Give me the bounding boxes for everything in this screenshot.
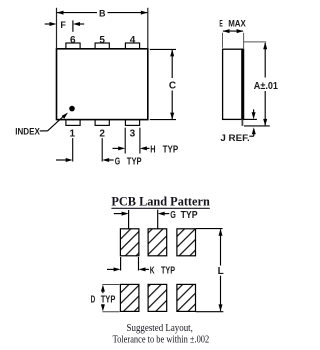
land G arrows bbox=[114, 213, 123, 215]
dimension J lower extension bbox=[244, 125, 270, 127]
svg-text:G: G bbox=[170, 210, 176, 221]
dimension G ticks (pin 1 / pin 2 centerlines) bbox=[72, 138, 74, 161]
F tick (pin 6 centerline) bbox=[72, 20, 74, 31]
svg-text:2: 2 bbox=[99, 129, 105, 140]
dimension B extension lines bbox=[56, 8, 58, 49]
pad 1 row 1 bbox=[120, 229, 138, 256]
svg-text:A±.01: A±.01 bbox=[254, 81, 279, 92]
package body (top view) bbox=[57, 49, 148, 120]
side view body bbox=[223, 49, 244, 119]
svg-text:TYP: TYP bbox=[127, 156, 142, 167]
svg-text:TYP: TYP bbox=[163, 145, 179, 156]
dimension C extension lines bbox=[150, 48, 176, 50]
svg-text:C: C bbox=[169, 81, 176, 92]
pin 6 bbox=[66, 43, 80, 49]
svg-text:TYP: TYP bbox=[161, 266, 175, 277]
svg-text:3: 3 bbox=[130, 129, 136, 140]
dimension H ticks (pin 3 edges) bbox=[124, 128, 126, 154]
dimension F arrows bbox=[45, 23, 51, 25]
pad 3 row 1 bbox=[177, 229, 196, 256]
svg-text:L: L bbox=[218, 266, 224, 277]
svg-text:Suggested Layout,: Suggested Layout, bbox=[127, 323, 193, 334]
pin 2 bbox=[95, 120, 109, 126]
svg-text:G: G bbox=[115, 156, 121, 167]
pad 2 row 1 bbox=[148, 229, 167, 256]
dimension G arrows bbox=[56, 159, 67, 161]
dimension J upper extension bbox=[244, 118, 257, 120]
dimension B line bbox=[57, 12, 97, 14]
dimension J down arrow bbox=[253, 109, 255, 114]
pin 5 bbox=[95, 43, 109, 49]
dimension E line bbox=[223, 30, 243, 32]
svg-text:E: E bbox=[219, 18, 222, 28]
pad 2 row 2 bbox=[148, 284, 167, 311]
dimension K arrows bbox=[107, 268, 115, 270]
dimension H arrows bbox=[113, 147, 120, 149]
svg-text:J REF.: J REF. bbox=[220, 133, 249, 143]
dimension C line bbox=[171, 50, 173, 78]
pin 1 bbox=[66, 120, 80, 126]
svg-text:F: F bbox=[60, 20, 66, 30]
svg-text:INDEX: INDEX bbox=[15, 127, 40, 137]
dimension K ticks bbox=[120, 257, 122, 271]
land G ticks bbox=[128, 210, 130, 229]
side view lead (thick bar) bbox=[241, 49, 244, 120]
svg-text:PCB Land Pattern: PCB Land Pattern bbox=[111, 194, 210, 209]
dimension J up arrow / leader bbox=[252, 127, 256, 134]
svg-text:5: 5 bbox=[99, 35, 105, 46]
dimension D line bbox=[101, 285, 105, 292]
svg-text:4: 4 bbox=[130, 35, 136, 46]
svg-text:TYP: TYP bbox=[101, 294, 116, 305]
index dot bbox=[69, 106, 75, 112]
pad 1 row 2 bbox=[120, 284, 138, 311]
pad 3 row 2 bbox=[177, 284, 196, 311]
dimension L extension lines bbox=[196, 228, 223, 230]
dimension A line bbox=[263, 42, 267, 49]
dimension L line bbox=[219, 229, 223, 236]
svg-text:Tolerance to be within ±.002: Tolerance to be within ±.002 bbox=[113, 335, 210, 346]
pin 3 bbox=[125, 120, 139, 126]
svg-text:MAX: MAX bbox=[228, 18, 246, 28]
dimension A top extension bbox=[244, 41, 267, 43]
svg-text:1: 1 bbox=[70, 129, 76, 140]
svg-text:B: B bbox=[99, 9, 106, 19]
svg-text:D: D bbox=[91, 294, 96, 305]
index leader bbox=[40, 130, 48, 132]
pin 4 bbox=[125, 43, 139, 49]
dimension E extension lines bbox=[222, 33, 224, 48]
dimension D extension lines bbox=[102, 284, 119, 286]
svg-text:6: 6 bbox=[70, 35, 76, 46]
svg-text:TYP: TYP bbox=[181, 210, 198, 221]
svg-text:H: H bbox=[150, 145, 155, 156]
svg-text:K: K bbox=[150, 266, 155, 277]
